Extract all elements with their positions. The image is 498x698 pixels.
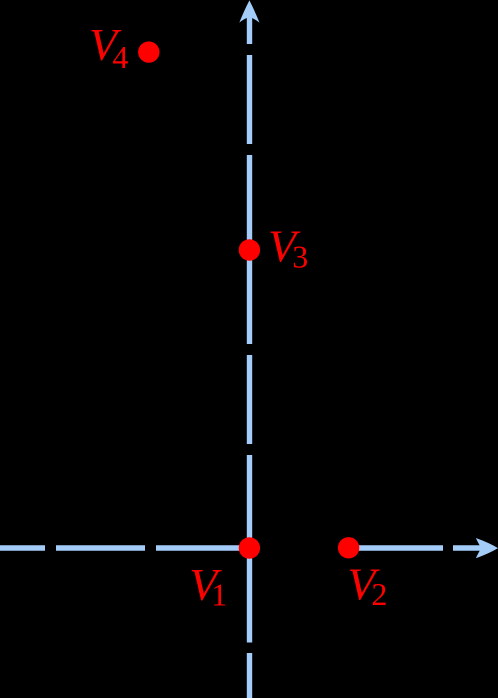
svg-text:3: 3 xyxy=(292,239,308,275)
svg-text:2: 2 xyxy=(371,576,387,612)
svg-text:1: 1 xyxy=(211,577,227,613)
svg-text:4: 4 xyxy=(112,39,128,75)
